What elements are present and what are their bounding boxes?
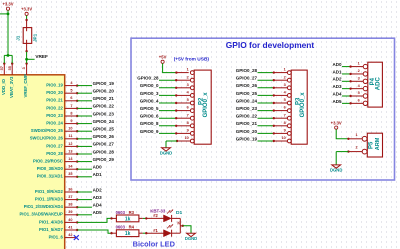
IC pin 41 PIO1_5/AD7 — [39, 225, 78, 232]
svg-text:PIO1_5/AD7: PIO1_5/AD7 — [39, 227, 63, 232]
wire + net label GPIO0_20 — [77, 89, 114, 94]
svg-text:GPIO0_26: GPIO0_26 — [93, 134, 115, 139]
IC pin 6 PIO0_21 — [46, 96, 78, 103]
resistor R3 1k — [116, 210, 139, 223]
svg-text:R4: R4 — [129, 225, 135, 230]
svg-text:GPIO0_25: GPIO0_25 — [93, 127, 115, 132]
P2 pin 3 — [187, 83, 195, 90]
svg-text:GPIO0_9: GPIO0_9 — [140, 129, 159, 134]
IC pin 9 PIO0_24 — [46, 119, 78, 126]
svg-text:3: 3 — [358, 76, 360, 80]
svg-text:K: K — [177, 221, 180, 226]
wire + net label GPIO0_22 — [77, 104, 114, 109]
P5 pin 2 wire to DGND — [336, 146, 367, 165]
svg-text:AD2: AD2 — [332, 77, 341, 82]
svg-text:PIO1_3/AD5/WAKEUP: PIO1_3/AD5/WAKEUP — [20, 212, 63, 217]
P3 pin 9 net GPIO0_20 — [236, 129, 291, 136]
wire + net label GPIO0_5 (P2) — [140, 106, 191, 112]
svg-text:10: 10 — [282, 136, 286, 140]
svg-text:GPIO0_27: GPIO0_27 — [93, 142, 115, 147]
svg-text:9: 9 — [70, 119, 72, 123]
P2 pin 4 — [187, 91, 195, 98]
svg-text:GPIO0_24: GPIO0_24 — [93, 119, 115, 124]
svg-text:VBAT_3V3: VBAT_3V3 — [9, 76, 14, 98]
svg-text:8: 8 — [70, 111, 72, 115]
svg-text:6: 6 — [284, 106, 286, 110]
svg-text:GPIO0_4: GPIO0_4 — [140, 98, 159, 103]
IC pin 12 PIO0_27 — [46, 142, 78, 149]
wire + net label GPIO0_23 — [77, 111, 114, 116]
IC top pin 55 VBAT_3V3 — [8, 62, 14, 98]
svg-text:GPIO0_28: GPIO0_28 — [236, 68, 258, 73]
svg-text:GPIO0_21: GPIO0_21 — [236, 121, 258, 126]
svg-text:8: 8 — [187, 121, 189, 125]
svg-text:PIO0_19: PIO0_19 — [46, 83, 63, 88]
svg-text:40: 40 — [68, 218, 72, 222]
IC U1 body — [0, 75, 65, 249]
title text — [226, 40, 315, 50]
P3 pin 6 net GPIO0_23 — [236, 106, 291, 113]
P3 pin 8 net GPIO0_21 — [236, 121, 291, 128]
wire + net label AD3 — [77, 195, 102, 200]
svg-text:5: 5 — [284, 98, 286, 102]
svg-text:10: 10 — [68, 127, 72, 131]
svg-text:6: 6 — [358, 98, 360, 102]
svg-text:GPIO0_23: GPIO0_23 — [93, 111, 115, 116]
IC pin 34 PIO0_30/AD0 — [37, 165, 79, 172]
svg-text:1: 1 — [358, 62, 360, 66]
P3 pin 7 net GPIO0_22 — [236, 113, 291, 120]
IC top pin 3 VREF_CMP — [22, 62, 28, 97]
svg-text:5: 5 — [358, 91, 360, 95]
svg-text:GPIO0_28: GPIO0_28 — [137, 76, 159, 81]
svg-text:AD0: AD0 — [332, 62, 341, 67]
wire + net label GPIO0_8 (P2) — [140, 121, 191, 127]
svg-text:GPIO0_6: GPIO0_6 — [140, 114, 159, 119]
svg-text:AD2: AD2 — [93, 187, 102, 192]
IC pin 11 SWCLK/PIO0_26 — [30, 134, 79, 141]
wire + net label GPIO0_3 (P2) — [140, 91, 191, 97]
wire R4 to LED anode 1 — [139, 228, 164, 234]
svg-text:PIO1_1/R/AD3: PIO1_1/R/AD3 — [35, 197, 64, 202]
svg-text:PIO0_22: PIO0_22 — [46, 105, 63, 110]
svg-text:1: 1 — [187, 68, 189, 72]
ground DGND (LED) — [185, 233, 197, 241]
svg-text:GPIO0_x: GPIO0_x — [203, 92, 209, 118]
wire + net label GPIO0_0 (P2) — [140, 83, 191, 89]
net label VREF — [35, 54, 48, 59]
IC pin 37 PIO1_1/R/AD3 — [35, 195, 79, 202]
wire + net label GPIO0_6 (P2) — [140, 114, 191, 120]
svg-text:7: 7 — [70, 104, 72, 108]
svg-text:3: 3 — [22, 67, 26, 69]
svg-text:0603: 0603 — [116, 225, 126, 230]
svg-text:PIO1_0/R/AD2: PIO1_0/R/AD2 — [35, 189, 64, 194]
svg-text:37: 37 — [68, 195, 72, 199]
svg-text:13: 13 — [68, 149, 72, 153]
connector P5 ARM body — [367, 133, 382, 157]
svg-text:PIO0_23: PIO0_23 — [46, 113, 63, 118]
wire + net label GPIO0_28 — [77, 149, 114, 154]
P2 pin 8 — [187, 121, 195, 128]
wire LED cathode to DGND — [183, 226, 191, 234]
wire + net label GPIO0_21 — [77, 96, 114, 101]
svg-text:J1: J1 — [16, 35, 21, 41]
svg-text:GPIO0_20: GPIO0_20 — [236, 129, 258, 134]
P2 pin 1 — [187, 68, 195, 75]
svg-text:7: 7 — [284, 113, 286, 117]
svg-text:GPIO0_24: GPIO0_24 — [236, 98, 258, 103]
power +3.3V symbol (P5) — [331, 120, 342, 129]
svg-text:GPIO0_22: GPIO0_22 — [93, 104, 115, 109]
IC pin 5 PIO0_20 — [46, 89, 78, 96]
svg-text:AD1: AD1 — [93, 172, 102, 177]
svg-text:KBT-33: KBT-33 — [150, 208, 166, 213]
wire IC pin40 to R3 — [77, 217, 116, 222]
svg-text:#2: #2 — [153, 213, 158, 218]
svg-text:12: 12 — [68, 142, 72, 146]
P2 pin 10 — [185, 136, 195, 143]
wire + net label AD5 — [77, 210, 102, 215]
connector P4 ADC body — [368, 62, 383, 107]
IC pin 36 PIO1_0/R/AD2 — [35, 187, 79, 194]
svg-text:10: 10 — [185, 136, 189, 140]
wire + net label AD2 — [77, 187, 102, 192]
P3 pin 4 net GPIO0_25 — [236, 91, 291, 98]
svg-text:5: 5 — [70, 89, 72, 93]
svg-text:PIO0_21: PIO0_21 — [46, 98, 63, 103]
svg-text:PIO1_2/SWDIO/AD4: PIO1_2/SWDIO/AD4 — [24, 204, 64, 209]
svg-text:GPIO0_20: GPIO0_20 — [93, 89, 115, 94]
P4 pin 4 net AD3 — [332, 84, 367, 91]
svg-text:#1: #1 — [153, 228, 158, 233]
power +3.3V symbol (JP1) — [21, 7, 32, 16]
wire + net label AD4 — [77, 203, 102, 208]
svg-text:2: 2 — [358, 69, 360, 73]
IC pin 39 PIO1_3/AD5/WAKEUP — [20, 210, 79, 217]
svg-text:2: 2 — [187, 75, 189, 79]
IC pin 8 PIO0_23 — [46, 111, 78, 118]
P2 pin 6 — [187, 106, 195, 113]
svg-text:JP1: JP1 — [32, 33, 37, 42]
wire + net label GPIO0_24 — [77, 119, 114, 124]
IC pin 38 PIO1_2/SWDIO/AD4 — [24, 203, 79, 210]
P3 pin 3 net GPIO0_26 — [236, 83, 291, 90]
svg-text:9: 9 — [187, 129, 189, 133]
svg-text:GPIO0_x: GPIO0_x — [300, 92, 306, 118]
P3 pin 1 net GPIO0_28 — [236, 68, 291, 75]
P4 pin 5 net AD4 — [332, 91, 367, 98]
LED D1 KBT-33 bicolor — [150, 208, 184, 236]
svg-text:11: 11 — [68, 134, 72, 138]
svg-text:R3: R3 — [129, 210, 135, 215]
P5 pin 1 wire from +3.3V — [336, 129, 367, 141]
svg-text:GPIO for development: GPIO for development — [226, 40, 315, 50]
svg-text:PIO0_27: PIO0_27 — [46, 143, 63, 148]
svg-text:AD5: AD5 — [332, 99, 341, 104]
P3 pin 10 net GPIO0_19 — [236, 136, 291, 143]
resistor R4 1k — [116, 225, 139, 238]
P4 pin 2 net AD1 — [332, 69, 367, 76]
P2 pin 2 — [187, 75, 195, 82]
wire + net label AD0 — [77, 165, 102, 170]
IC pin 13 PIO0_28 — [46, 149, 78, 156]
svg-text:VDD_IO: VDD_IO — [1, 78, 6, 95]
IC pin 10 SWDIO/PIO0_25 — [31, 127, 78, 134]
wire +3.3V to JP1 — [26, 16, 28, 20]
svg-text:+3.3V: +3.3V — [21, 7, 32, 12]
svg-text:SWCLK/PIO0_26: SWCLK/PIO0_26 — [30, 136, 64, 141]
svg-text:GPIO0_21: GPIO0_21 — [93, 96, 115, 101]
connector P2 GPIO0_x body — [194, 70, 211, 144]
svg-text:35: 35 — [68, 172, 72, 176]
svg-text:57: 57 — [0, 66, 4, 70]
svg-text:9: 9 — [284, 129, 286, 133]
svg-text:GPIO0_25: GPIO0_25 — [236, 91, 258, 96]
svg-text:DGND: DGND — [160, 150, 172, 155]
svg-text:+3.3V: +3.3V — [331, 120, 342, 125]
svg-text:ARM: ARM — [375, 137, 381, 150]
wire + net label AD1 — [77, 172, 102, 177]
svg-text:AD5: AD5 — [93, 210, 102, 215]
svg-text:36: 36 — [68, 187, 72, 191]
wire + net label GPIO0_4 (P2) — [140, 98, 191, 104]
IC pin 40 PIO1_4/AD6 — [39, 218, 78, 225]
wire + net label GPIO0_27 — [77, 142, 114, 147]
svg-text:42: 42 — [68, 233, 72, 237]
jumper JP1 (J1) — [16, 19, 38, 53]
svg-text:38: 38 — [68, 203, 72, 207]
svg-text:PIO0_31/AD1: PIO0_31/AD1 — [37, 174, 64, 179]
svg-text:GPIO0_19: GPIO0_19 — [236, 136, 258, 141]
svg-text:5: 5 — [187, 98, 189, 102]
svg-text:AD4: AD4 — [93, 203, 102, 208]
svg-text:GPIO0_26: GPIO0_26 — [236, 83, 258, 88]
svg-text:6: 6 — [70, 96, 72, 100]
wire IC pin41 to R4 — [77, 230, 116, 234]
svg-text:1k: 1k — [125, 231, 131, 237]
P2 pin 7 — [187, 113, 195, 120]
IC pin 35 PIO0_31/AD1 — [37, 172, 79, 179]
P3 pin 5 net GPIO0_24 — [236, 98, 291, 105]
svg-text:AD3: AD3 — [93, 195, 102, 200]
svg-text:41: 41 — [68, 225, 72, 229]
svg-text:AD0: AD0 — [93, 165, 102, 170]
wire + net label GPIO0_28 (P2) — [137, 76, 190, 82]
svg-text:PIO0_30/AD0: PIO0_30/AD0 — [37, 166, 64, 171]
IC pin 42 PIO1_6 — [49, 233, 78, 240]
wire + net label GPIO0_19 — [77, 81, 114, 86]
svg-text:1: 1 — [355, 133, 357, 137]
svg-text:55: 55 — [8, 66, 12, 70]
svg-text:DGND: DGND — [330, 167, 342, 172]
P2 pin 5 — [187, 98, 195, 105]
no-connect pin 42 — [74, 235, 79, 240]
wire + net label GPIO0_29 — [77, 157, 114, 162]
svg-text:VREF: VREF — [35, 54, 48, 59]
ground DGND (P2) — [160, 148, 172, 156]
wire P2 pin10 to DGND — [166, 140, 190, 148]
svg-text:GPIO0_19: GPIO0_19 — [93, 81, 115, 86]
wire R3 to LED anode 2 — [139, 213, 164, 219]
svg-text:0603: 0603 — [116, 210, 126, 215]
svg-text:PIO0_28: PIO0_28 — [46, 151, 63, 156]
svg-text:7: 7 — [187, 113, 189, 117]
svg-text:6: 6 — [187, 106, 189, 110]
P2 pin 9 — [187, 129, 195, 136]
wire + net label GPIO0_25 — [77, 127, 114, 132]
svg-text:1k: 1k — [125, 216, 131, 222]
svg-text:GPIO0_8: GPIO0_8 — [140, 121, 159, 126]
box GPIO for development — [131, 38, 395, 180]
power +5V symbol — [159, 54, 167, 63]
svg-text:SWDIO/PIO0_25: SWDIO/PIO0_25 — [31, 128, 64, 133]
svg-text:3: 3 — [187, 83, 189, 87]
svg-text:8: 8 — [284, 121, 286, 125]
svg-text:+5V: +5V — [159, 54, 167, 59]
svg-text:GPIO0_5: GPIO0_5 — [140, 106, 159, 111]
svg-text:PIO1_6: PIO1_6 — [49, 235, 64, 240]
IC pin 7 PIO0_22 — [46, 104, 78, 111]
svg-text:D1: D1 — [176, 210, 182, 216]
svg-text:PIO0_24: PIO0_24 — [46, 121, 63, 126]
svg-text:GPIO0_0: GPIO0_0 — [140, 83, 159, 88]
wire + net label GPIO0_26 — [77, 134, 114, 139]
svg-text:AD1: AD1 — [332, 69, 341, 74]
note (+5V from USB) — [174, 56, 210, 62]
P3 pin 2 net GPIO0_27 — [236, 75, 291, 82]
svg-text:3: 3 — [284, 83, 286, 87]
svg-text:(+5V from USB): (+5V from USB) — [174, 56, 210, 62]
wire + net label GPIO0_9 (P2) — [140, 129, 191, 135]
svg-text:2: 2 — [284, 75, 286, 79]
svg-text:2: 2 — [355, 146, 357, 150]
wire +3.3V to pins 57/55 — [0, 10, 12, 63]
svg-text:GPIO0_28: GPIO0_28 — [93, 149, 115, 154]
svg-text:P5: P5 — [368, 141, 374, 149]
svg-text:ADC: ADC — [375, 77, 381, 91]
IC top pin 57 VDD_IO — [0, 62, 6, 95]
svg-text:GPIO0_23: GPIO0_23 — [236, 106, 258, 111]
wire JP1 to VREF node — [25, 52, 34, 64]
svg-text:PIO0_20: PIO0_20 — [46, 90, 63, 95]
ground DGND (P5) — [330, 165, 342, 173]
svg-text:DGND: DGND — [185, 236, 197, 241]
svg-text:39: 39 — [68, 210, 72, 214]
svg-text:+3.3V: +3.3V — [2, 2, 13, 7]
svg-text:GPIO0_3: GPIO0_3 — [140, 91, 159, 96]
svg-text:PIO0_29/ROSC: PIO0_29/ROSC — [33, 159, 63, 164]
svg-text:Bicolor LED: Bicolor LED — [133, 239, 176, 248]
svg-text:PIO1_4/AD6: PIO1_4/AD6 — [39, 219, 63, 224]
svg-text:GPIO0_29: GPIO0_29 — [93, 157, 115, 162]
wire +5V to P2 pin1 — [163, 63, 189, 73]
svg-text:GPIO0_22: GPIO0_22 — [236, 114, 258, 119]
svg-text:GPIO0_27: GPIO0_27 — [236, 76, 258, 81]
svg-text:AD4: AD4 — [332, 91, 341, 96]
IC pin 4 PIO0_19 — [46, 81, 78, 88]
P4 pin 1 net AD0 — [332, 62, 367, 69]
connector P3 GPIO0_x body — [291, 70, 307, 144]
power +3.3V symbol (left) — [2, 2, 13, 11]
svg-text:VREF_CMP: VREF_CMP — [23, 74, 28, 98]
svg-text:AD3: AD3 — [332, 84, 341, 89]
P4 pin 6 net AD5 — [332, 98, 367, 105]
svg-text:1: 1 — [284, 68, 286, 72]
note Bicolor LED — [133, 239, 176, 248]
P4 pin 3 net AD2 — [332, 76, 367, 83]
IC pin 14 PIO0_29/ROSC — [33, 157, 78, 164]
